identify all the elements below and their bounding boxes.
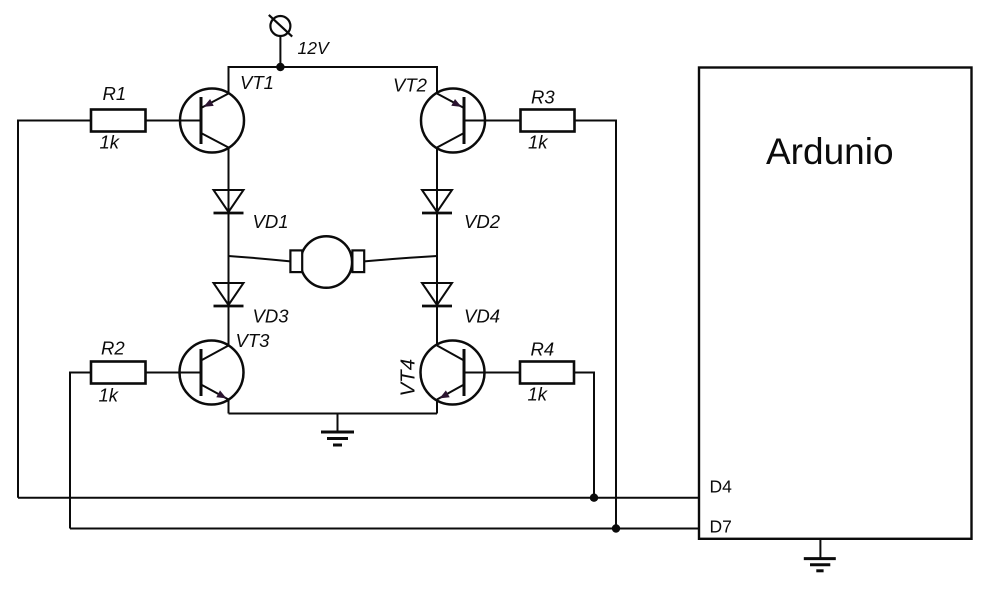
- wire ground rail: [229, 413, 438, 415]
- svg-text:D4: D4: [710, 477, 733, 497]
- svg-text:1k: 1k: [99, 385, 120, 406]
- ground GND1: [321, 414, 354, 446]
- wire D4 net: [18, 497, 699, 499]
- Arduino box U1: [699, 68, 972, 539]
- svg-text:R1: R1: [103, 83, 127, 104]
- wire VT4 base to R4: [464, 372, 520, 374]
- resistor R3: [521, 110, 575, 132]
- wire top rail: [229, 67, 438, 94]
- wire motor left lead: [229, 256, 291, 261]
- svg-text:Ardunio: Ardunio: [766, 131, 894, 172]
- svg-text:VD1: VD1: [253, 211, 289, 232]
- wire R2 to VT3 base: [146, 372, 202, 374]
- wire VT4 emitter to ground rail: [436, 400, 438, 414]
- wire 12V stem: [279, 36, 281, 67]
- junction dot D7: [612, 524, 620, 532]
- diode VD3: [214, 283, 244, 306]
- wire R1 left down to D4 net: [18, 121, 91, 498]
- wire motor right lead: [364, 256, 437, 261]
- svg-text:12V: 12V: [298, 38, 331, 58]
- wire left column VT1 collector through VD1 VD3 to VT3 collector: [228, 148, 230, 346]
- resistor R2: [91, 362, 146, 384]
- wire D7 net: [70, 528, 699, 530]
- svg-text:R3: R3: [531, 87, 555, 108]
- svg-text:VD4: VD4: [464, 306, 500, 327]
- svg-text:VT3: VT3: [236, 330, 271, 351]
- resistor R4: [520, 362, 574, 384]
- transistor VT4: [421, 341, 485, 405]
- svg-text:VD3: VD3: [253, 306, 290, 327]
- svg-text:1k: 1k: [528, 132, 549, 153]
- junction dot 12V on top rail: [276, 63, 284, 71]
- diode VD1: [214, 190, 244, 213]
- svg-text:VD2: VD2: [464, 211, 501, 232]
- svg-text:1k: 1k: [528, 384, 549, 405]
- wire R3 right down to D7 net: [575, 121, 617, 529]
- wire right column VT2 collector through VD2 VD4 to VT4 collector: [436, 148, 438, 346]
- transistor VT1: [180, 89, 244, 153]
- svg-text:D7: D7: [710, 517, 732, 537]
- svg-text:R4: R4: [531, 339, 555, 360]
- power symbol 12V: [269, 15, 292, 37]
- wire R2 left down to D7 net: [70, 373, 91, 529]
- transistor VT2: [421, 89, 485, 153]
- wire R4 right down to D4 net: [574, 373, 594, 498]
- diode VD4: [422, 283, 452, 306]
- wire R1 to VT1 base: [146, 120, 202, 122]
- svg-text:1k: 1k: [100, 132, 121, 153]
- junction dot D4: [590, 494, 598, 502]
- transistor VT3: [180, 341, 244, 405]
- svg-text:VT4: VT4: [397, 359, 420, 397]
- ground GND2 under Arduino: [804, 539, 836, 571]
- svg-text:VT1: VT1: [240, 72, 274, 93]
- resistor R1: [91, 110, 146, 132]
- wire VT3 emitter to ground rail: [228, 400, 230, 414]
- wire VT2 base to R3: [464, 120, 521, 122]
- motor M1: [290, 236, 364, 288]
- diode VD2: [422, 190, 452, 213]
- svg-text:R2: R2: [101, 338, 125, 359]
- svg-text:VT2: VT2: [393, 75, 428, 96]
